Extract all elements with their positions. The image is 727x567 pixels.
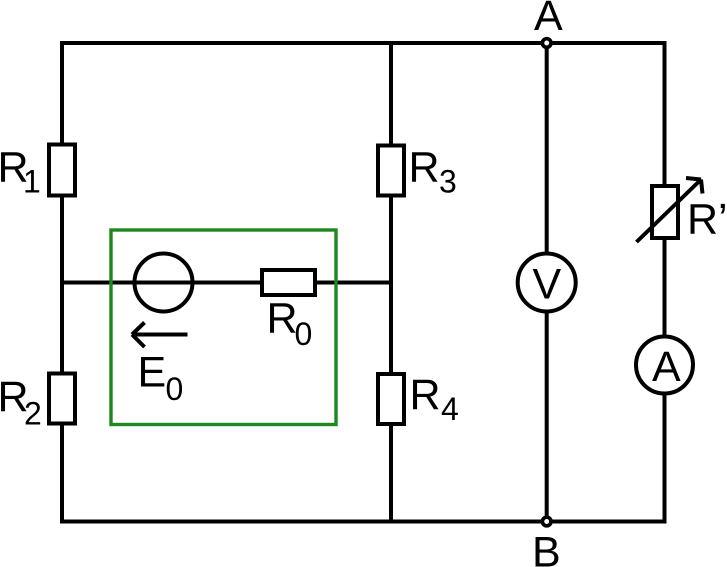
svg-text:3: 3 [439, 164, 457, 200]
svg-text:0: 0 [166, 371, 184, 407]
svg-text:R: R [267, 295, 298, 343]
resistor R2 [49, 374, 75, 424]
svg-text:4: 4 [441, 391, 459, 427]
svg-text:1: 1 [23, 164, 41, 200]
resistor R4 [378, 374, 404, 424]
svg-text:0: 0 [295, 316, 313, 352]
wire voltmeter branch A-B [545, 43, 549, 522]
wire top horizontal [60, 41, 665, 45]
wire middle vertical branch (R3/R4) [389, 41, 393, 524]
source E0 circle [135, 254, 193, 312]
resistor R1 [49, 145, 75, 196]
wire right vertical branch [663, 41, 667, 524]
arrow for E0 (pointing left) [134, 333, 188, 337]
voltmeter V [518, 254, 576, 312]
svg-text:B: B [532, 529, 561, 567]
resistor R0 [262, 270, 315, 295]
svg-text:E: E [138, 349, 167, 397]
svg-text:A: A [652, 343, 681, 391]
node B (open circle) [542, 517, 551, 526]
svg-text:R: R [410, 371, 441, 419]
svg-text:R: R [409, 144, 440, 192]
wire left vertical branch [60, 41, 64, 524]
node A (open circle) [542, 39, 551, 48]
resistor R3 [378, 146, 404, 196]
svg-text:2: 2 [24, 396, 42, 432]
variable resistor R' [652, 186, 678, 238]
wire middle horizontal (source branch) [62, 281, 391, 285]
R' diagonal arrow [637, 180, 702, 243]
svg-text:V: V [533, 261, 562, 309]
svg-text:A: A [534, 0, 563, 40]
green source box [111, 230, 336, 425]
svg-text:R’: R’ [687, 196, 727, 244]
ammeter A [636, 337, 693, 394]
wire bottom horizontal [60, 520, 665, 524]
